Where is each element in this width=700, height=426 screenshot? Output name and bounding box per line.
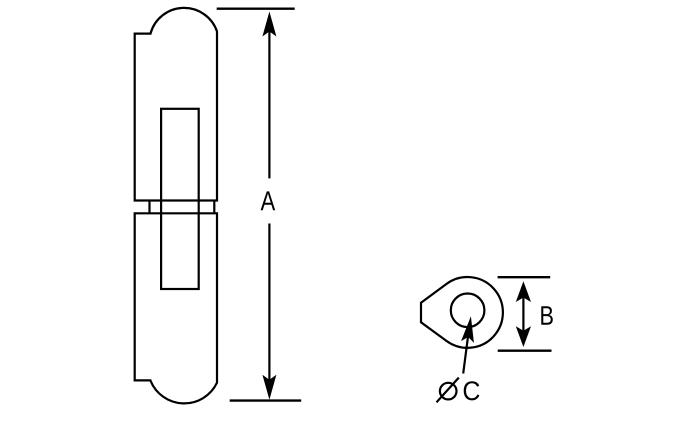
leader arrowhead <box>461 315 477 342</box>
diameter symbol circle <box>440 383 457 400</box>
dimension A top arrowhead <box>262 12 276 37</box>
dimension A line lower segment <box>268 224 270 388</box>
hinge upper leaf outline <box>135 8 217 201</box>
diameter symbol slash <box>437 378 459 403</box>
hinge knuckle joint right edge <box>213 201 215 214</box>
label A <box>261 191 276 210</box>
dimension A top extension line <box>217 7 295 9</box>
dimension B line <box>522 290 524 338</box>
label B <box>541 306 552 325</box>
dimension A bottom arrowhead <box>262 375 276 400</box>
hinge lower leaf outline <box>135 213 217 403</box>
dimension A line upper segment <box>268 24 270 178</box>
dimension A bottom extension line <box>230 399 302 401</box>
leader line to pin hole <box>463 329 469 374</box>
dimension B bottom arrowhead <box>516 326 531 347</box>
hinge pin hidden rectangle <box>161 109 199 289</box>
barrel top view outline <box>421 277 503 348</box>
pin hole circle <box>451 294 485 328</box>
label C <box>464 381 480 400</box>
dimension B top extension line <box>498 276 551 278</box>
dimension B bottom extension line <box>498 350 552 352</box>
hinge knuckle joint left edge <box>148 201 150 214</box>
dimension B top arrowhead <box>516 281 531 302</box>
